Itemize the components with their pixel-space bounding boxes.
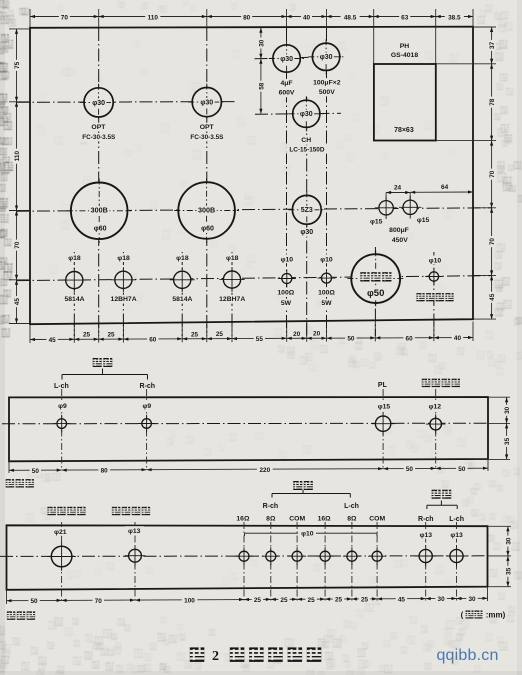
label tube2 12BH7A bbox=[110, 295, 137, 304]
svg-text:25: 25 bbox=[308, 597, 316, 604]
svg-text:45: 45 bbox=[49, 337, 57, 344]
hole pilot lamp phi15 bbox=[375, 416, 390, 431]
label terminal 6 COM bbox=[370, 512, 385, 521]
svg-text:8Ω: 8Ω bbox=[347, 515, 357, 522]
volume bracket bbox=[62, 369, 148, 380]
svg-text:φ60: φ60 bbox=[201, 225, 214, 232]
svg-text:φ30: φ30 bbox=[200, 100, 213, 107]
label phi18 tube4 bbox=[223, 253, 241, 262]
svg-text:φ12: φ12 bbox=[429, 403, 442, 410]
centerline caps row bbox=[255, 57, 342, 59]
svg-text:20: 20 bbox=[313, 331, 321, 338]
label power switch cjk bbox=[422, 379, 430, 387]
svg-text:φ18: φ18 bbox=[68, 255, 81, 262]
svg-text:48.5: 48.5 bbox=[344, 14, 357, 21]
svg-text:110: 110 bbox=[148, 14, 159, 21]
caption figure 2 chassis drawing bbox=[190, 647, 321, 664]
svg-text:φ9: φ9 bbox=[58, 403, 67, 410]
hole OPT2 phi30 bbox=[192, 88, 221, 117]
hole output 4 phi10 bbox=[320, 551, 330, 561]
svg-text:φ30: φ30 bbox=[300, 111, 313, 118]
svg-text:100: 100 bbox=[184, 597, 195, 604]
label terminal 3 COM bbox=[290, 512, 305, 521]
centerline OPT row bbox=[17, 101, 237, 104]
svg-text:COM: COM bbox=[369, 515, 385, 522]
svg-text:GS-4018: GS-4018 bbox=[391, 52, 418, 59]
label phi12 switch bbox=[426, 402, 445, 411]
top dimension line 70 110 80 40 48.5 63 38.5 bbox=[30, 12, 473, 21]
dimension 58 vertical bbox=[257, 59, 266, 114]
svg-text:70: 70 bbox=[14, 241, 21, 249]
svg-text:LC-15-150D: LC-15-150D bbox=[289, 146, 325, 153]
centerline rectifier row bbox=[17, 208, 492, 211]
svg-text:φ18: φ18 bbox=[117, 255, 130, 262]
label output cjk bbox=[293, 481, 302, 490]
front ext vertical x=61.7 bbox=[61, 389, 63, 470]
label phi9 L bbox=[54, 401, 71, 410]
label L-ch input bbox=[448, 512, 466, 521]
svg-text:OPT: OPT bbox=[91, 124, 106, 131]
label tube1 5814A bbox=[63, 295, 86, 304]
label phi18 tube2 bbox=[114, 253, 132, 262]
svg-text:30: 30 bbox=[258, 39, 265, 47]
svg-text:25: 25 bbox=[216, 331, 224, 338]
svg-text:70: 70 bbox=[61, 14, 69, 21]
svg-text:φ60: φ60 bbox=[94, 226, 107, 233]
hole filter cap phi15 left bbox=[379, 201, 393, 215]
svg-text:300B: 300B bbox=[91, 206, 108, 215]
label cap2 100uFx2 500V bbox=[311, 78, 343, 87]
hole resistor2 phi10 bbox=[322, 273, 332, 283]
svg-text:24: 24 bbox=[394, 185, 402, 192]
svg-text:37: 37 bbox=[489, 41, 496, 49]
svg-text:R-ch: R-ch bbox=[140, 383, 156, 390]
svg-text:5W: 5W bbox=[281, 300, 292, 307]
back ext vertical x=456.5 bbox=[456, 522, 458, 601]
svg-text:600V: 600V bbox=[279, 90, 295, 97]
svg-text:300B: 300B bbox=[198, 205, 215, 214]
svg-text:16Ω: 16Ω bbox=[318, 515, 332, 522]
label OPT1 bbox=[91, 123, 106, 132]
bottom dimension line of top panel bbox=[30, 331, 473, 344]
svg-text:100Ω: 100Ω bbox=[277, 290, 294, 297]
hole choke phi30 bbox=[293, 100, 320, 127]
svg-text:φ30: φ30 bbox=[92, 100, 105, 107]
svg-text:L-ch: L-ch bbox=[54, 383, 69, 390]
svg-text:45: 45 bbox=[14, 298, 21, 306]
svg-text:70: 70 bbox=[489, 170, 496, 178]
hole meter switch phi10 bbox=[429, 272, 438, 281]
label volume cjk bbox=[93, 358, 102, 367]
hole tube 12BH7A phi18 bbox=[223, 271, 240, 288]
hole power switch phi12 bbox=[430, 418, 442, 430]
dimension 64 bbox=[410, 184, 473, 194]
label cap1 4uF 600V bbox=[279, 79, 294, 88]
front panel centerline bbox=[2, 422, 488, 425]
back ext vertical x=297.1 bbox=[296, 522, 298, 601]
svg-text:50: 50 bbox=[347, 336, 355, 343]
front bottom dimension line 50 80 220 50 50 bbox=[9, 464, 488, 475]
front ext left edge bbox=[8, 461, 10, 473]
label phi18 tube3 bbox=[173, 253, 191, 262]
svg-text:5814A: 5814A bbox=[172, 296, 192, 303]
hole rectifier 5Z3 phi30 bbox=[292, 195, 321, 224]
label CH LC-15-150D bbox=[301, 136, 312, 145]
svg-text:60: 60 bbox=[406, 335, 414, 342]
hole volume R phi9 bbox=[142, 419, 152, 429]
back right dimension 30 35 bbox=[489, 526, 513, 586]
svg-text:OPT: OPT bbox=[200, 124, 215, 131]
hole fuse phi13 bbox=[129, 549, 142, 562]
label phi10 meter switch bbox=[426, 256, 444, 265]
svg-text:500V: 500V bbox=[319, 89, 335, 96]
svg-text:30: 30 bbox=[505, 537, 512, 545]
back bottom dimension line bbox=[7, 594, 488, 605]
svg-text:R-ch: R-ch bbox=[263, 503, 279, 510]
back ext vertical x=270.8 bbox=[270, 522, 272, 601]
svg-text:25: 25 bbox=[83, 332, 91, 339]
label unit mm bbox=[461, 611, 506, 620]
svg-text:25: 25 bbox=[280, 597, 288, 604]
svg-text:φ9: φ9 bbox=[142, 403, 151, 410]
centerline small-tube row bbox=[17, 276, 492, 281]
back ext vertical x=351.9 bbox=[351, 522, 353, 601]
back panel outline bbox=[7, 525, 488, 590]
centerline cap1 vertical bbox=[286, 28, 288, 336]
label terminal 1 16Ω bbox=[235, 512, 250, 521]
svg-text:78×63: 78×63 bbox=[394, 127, 414, 134]
svg-text:PL: PL bbox=[378, 382, 388, 389]
label phi10 r2 bbox=[318, 254, 336, 263]
svg-text:φ13: φ13 bbox=[450, 532, 463, 539]
svg-text::mm): :mm) bbox=[486, 611, 506, 620]
svg-text:CH: CH bbox=[301, 137, 311, 144]
svg-text:64: 64 bbox=[441, 184, 449, 191]
svg-text:50: 50 bbox=[30, 598, 38, 605]
svg-text:5814A: 5814A bbox=[64, 296, 84, 303]
hole output 1 phi10 bbox=[239, 551, 249, 561]
svg-text:70: 70 bbox=[489, 238, 496, 246]
svg-text:30: 30 bbox=[504, 406, 511, 414]
hole resistor1 phi10 bbox=[282, 274, 292, 284]
svg-text:45: 45 bbox=[398, 596, 406, 603]
label phi18 tube1 bbox=[65, 253, 83, 262]
svg-text:4μF: 4μF bbox=[280, 80, 292, 87]
svg-text:FC-30-3.5S: FC-30-3.5S bbox=[82, 134, 116, 141]
svg-text:20: 20 bbox=[293, 331, 301, 338]
hole output 5 phi10 bbox=[347, 551, 357, 561]
centerline ammeter vertical bbox=[374, 247, 376, 336]
svg-text:L-ch: L-ch bbox=[344, 503, 359, 510]
svg-text:qqibb.cn: qqibb.cn bbox=[436, 647, 498, 664]
label terminal 5 8Ω bbox=[344, 512, 359, 521]
svg-text:60: 60 bbox=[149, 337, 157, 344]
svg-text:φ15: φ15 bbox=[417, 217, 430, 224]
output bracket bbox=[272, 490, 350, 498]
centerline small tube 2 vertical bbox=[122, 252, 124, 336]
label terminal 2 8Ω bbox=[263, 512, 278, 521]
hole OPT1 phi30 bbox=[84, 88, 113, 117]
back ext vertical x=244 bbox=[243, 522, 245, 601]
svg-text:80: 80 bbox=[243, 14, 251, 21]
svg-text:5W: 5W bbox=[321, 300, 332, 307]
svg-text:50: 50 bbox=[458, 466, 466, 473]
label back-part cjk bbox=[7, 611, 15, 619]
hole capacitor1 phi30 bbox=[273, 45, 300, 72]
svg-text:40: 40 bbox=[454, 335, 462, 342]
left dimension chain 75 110 70 45 bbox=[9, 29, 30, 324]
back ext left edge bbox=[6, 590, 8, 604]
front ext vertical x=435.7 bbox=[435, 389, 437, 470]
svg-text:φ21: φ21 bbox=[54, 529, 67, 536]
hole filter cap phi15 right bbox=[403, 200, 417, 214]
label tube4 12BH7A bbox=[219, 295, 247, 304]
svg-text:φ10: φ10 bbox=[429, 257, 442, 264]
dimension 24 bbox=[386, 185, 410, 201]
svg-text:80: 80 bbox=[101, 467, 109, 474]
hole capacitor2 phi30 bbox=[312, 43, 339, 70]
hole tube 12BH7A phi18 bbox=[115, 271, 132, 288]
svg-text:FC-30-3.5S: FC-30-3.5S bbox=[190, 134, 224, 141]
label front-part cjk bbox=[6, 479, 14, 487]
centerline small tube 1 vertical bbox=[73, 252, 75, 336]
label tube3 5814A bbox=[171, 295, 194, 304]
svg-text:12BH7A: 12BH7A bbox=[111, 296, 137, 303]
label 100ohm 5W no.2 bbox=[317, 288, 336, 297]
svg-text:100Ω: 100Ω bbox=[318, 290, 335, 297]
svg-text:L-ch: L-ch bbox=[449, 516, 464, 523]
hole tube 5814A phi18 bbox=[174, 271, 191, 288]
svg-text:φ18: φ18 bbox=[226, 255, 239, 262]
back ext vertical x=135 bbox=[134, 522, 136, 601]
svg-text:40: 40 bbox=[303, 14, 311, 21]
bottom extension lines bbox=[30, 322, 473, 344]
svg-text:63: 63 bbox=[401, 14, 409, 21]
svg-text:35: 35 bbox=[504, 437, 511, 445]
PH transformer cutout 78x63 bbox=[374, 64, 436, 141]
svg-text:25: 25 bbox=[335, 597, 343, 604]
input bracket bbox=[427, 501, 457, 510]
centerline small tube 4 vertical bbox=[231, 252, 233, 336]
svg-text:58: 58 bbox=[258, 82, 265, 90]
svg-text:25: 25 bbox=[191, 331, 199, 338]
svg-text:φ10: φ10 bbox=[281, 256, 294, 263]
right dimension chain 37 78 70 70 45 bbox=[436, 27, 496, 319]
svg-text:φ15: φ15 bbox=[378, 403, 391, 410]
hole output 2 phi10 bbox=[266, 551, 276, 561]
front panel outline bbox=[9, 397, 488, 461]
label power input cjk bbox=[47, 507, 55, 515]
front ext right edge bbox=[487, 459, 489, 471]
svg-text:100μF×2: 100μF×2 bbox=[313, 79, 341, 86]
label R-ch input bbox=[417, 512, 435, 521]
hole input R phi13 bbox=[419, 549, 432, 562]
hole 300B no.1 phi60 bbox=[71, 183, 128, 240]
svg-text:50: 50 bbox=[406, 466, 414, 473]
front right dimension 30 35 bbox=[489, 397, 511, 459]
svg-text:8Ω: 8Ω bbox=[266, 515, 276, 522]
svg-text:φ30: φ30 bbox=[280, 56, 293, 63]
centerline OPT1 vertical bbox=[98, 28, 100, 336]
phi10 callout for output holes bbox=[245, 531, 378, 538]
dimension 30 vertical bbox=[257, 28, 266, 59]
top panel outline bbox=[30, 27, 473, 325]
svg-text:2: 2 bbox=[212, 649, 219, 664]
svg-text:45: 45 bbox=[489, 293, 496, 301]
svg-text:25: 25 bbox=[361, 597, 369, 604]
top extension lines bbox=[30, 9, 473, 64]
centerline choke row bbox=[255, 113, 341, 114]
svg-text:(: ( bbox=[461, 611, 464, 620]
svg-text:75: 75 bbox=[14, 61, 21, 69]
svg-text:φ13: φ13 bbox=[128, 528, 141, 535]
svg-text:220: 220 bbox=[260, 467, 271, 474]
centerline cap2 vertical bbox=[326, 28, 328, 336]
svg-text:COM: COM bbox=[289, 515, 305, 522]
back panel centerline bbox=[0, 555, 488, 558]
centerline small tube 3 vertical bbox=[181, 252, 183, 336]
svg-text:12BH7A: 12BH7A bbox=[219, 296, 245, 303]
hole tube 5814A phi18 bbox=[66, 272, 83, 289]
label phi15 PL bbox=[375, 402, 394, 411]
front ext vertical x=383.1 bbox=[382, 389, 384, 470]
label phi21 bbox=[51, 527, 70, 536]
label OPT2 bbox=[199, 123, 214, 132]
svg-text:30: 30 bbox=[468, 596, 476, 603]
label phi9 R bbox=[138, 401, 155, 410]
svg-text:φ10: φ10 bbox=[320, 256, 333, 263]
label phi13 input R bbox=[416, 530, 435, 539]
svg-text:φ15: φ15 bbox=[370, 218, 383, 225]
hole input L phi13 bbox=[450, 549, 463, 562]
hole output 6 phi10 bbox=[372, 551, 382, 561]
svg-text:450V: 450V bbox=[392, 237, 408, 244]
svg-text:R-ch: R-ch bbox=[418, 516, 434, 523]
hole output 3 phi10 bbox=[292, 551, 302, 561]
centerline OPT2 vertical bbox=[206, 28, 208, 336]
label phi13 input L bbox=[447, 530, 466, 539]
svg-text:5Z3: 5Z3 bbox=[301, 207, 313, 214]
svg-text:PH: PH bbox=[400, 43, 410, 50]
svg-text:78: 78 bbox=[489, 98, 496, 106]
back ext vertical x=325.1 bbox=[324, 522, 326, 601]
label phi13 fuse bbox=[125, 526, 144, 535]
svg-text:50: 50 bbox=[32, 468, 40, 475]
svg-text:800μF: 800μF bbox=[389, 227, 409, 234]
hole power input phi21 bbox=[51, 546, 72, 567]
svg-text:φ50: φ50 bbox=[367, 288, 384, 299]
centerline meter-switch vertical bbox=[433, 252, 435, 336]
back ext right edge bbox=[487, 587, 489, 601]
label meter-switch cjk bbox=[416, 293, 424, 301]
label input cjk bbox=[432, 490, 441, 499]
label phi10 r1 bbox=[278, 254, 296, 263]
svg-text:38.5: 38.5 bbox=[448, 14, 461, 21]
svg-text:φ10: φ10 bbox=[301, 531, 314, 538]
svg-text:70: 70 bbox=[95, 598, 103, 605]
svg-text:25: 25 bbox=[254, 597, 262, 604]
label fuse holder cjk bbox=[112, 507, 120, 515]
label terminal 4 16Ω bbox=[317, 512, 332, 521]
centerline CH/5Z3 vertical bbox=[306, 97, 308, 336]
hole volume L phi9 bbox=[57, 419, 67, 429]
svg-text:φ30: φ30 bbox=[300, 229, 313, 236]
svg-text:110: 110 bbox=[14, 151, 21, 162]
back ext vertical x=425.7 bbox=[425, 522, 427, 601]
hole 300B no.2 phi60 bbox=[178, 182, 235, 239]
hole ammeter phi50 bbox=[351, 254, 400, 303]
svg-text:φ30: φ30 bbox=[320, 54, 333, 61]
back ext vertical x=377.1 bbox=[376, 522, 378, 601]
svg-text:35: 35 bbox=[505, 567, 512, 575]
svg-text:25: 25 bbox=[107, 332, 115, 339]
svg-text:φ13: φ13 bbox=[420, 532, 433, 539]
label phi30 below 5Z3 bbox=[299, 228, 315, 237]
front ext vertical x=146.6 bbox=[146, 389, 148, 470]
back ext vertical x=61.6 bbox=[61, 522, 63, 601]
svg-text:30: 30 bbox=[438, 596, 446, 603]
svg-text:16Ω: 16Ω bbox=[236, 515, 250, 522]
svg-text:55: 55 bbox=[256, 336, 264, 343]
svg-text:φ18: φ18 bbox=[176, 255, 189, 262]
label 100ohm 5W no.1 bbox=[276, 288, 295, 297]
